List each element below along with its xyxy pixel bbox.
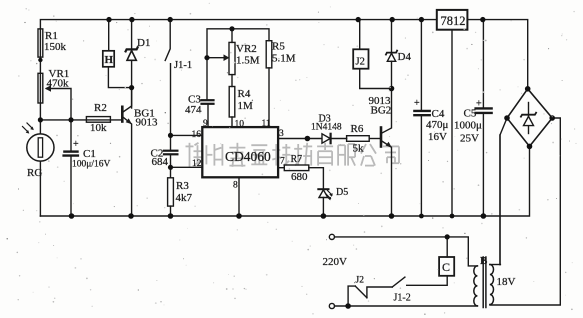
svg-text:J1-1: J1-1 (174, 60, 192, 71)
svg-text:R4: R4 (238, 88, 251, 100)
svg-text:+: + (476, 99, 482, 110)
svg-text:25V: 25V (460, 133, 479, 145)
svg-text:B: B (480, 255, 488, 267)
svg-text:470k: 470k (47, 78, 70, 90)
svg-text:R6: R6 (351, 123, 364, 135)
svg-text:D4: D4 (398, 51, 412, 63)
svg-text:R7: R7 (291, 154, 303, 165)
svg-text:RG: RG (27, 167, 42, 179)
svg-text:680: 680 (291, 171, 308, 183)
svg-text:+: + (414, 98, 420, 109)
svg-text:9013: 9013 (136, 117, 159, 129)
svg-text:12: 12 (192, 159, 202, 169)
svg-text:R2: R2 (94, 102, 107, 114)
svg-text:9: 9 (203, 119, 208, 129)
svg-text:1M: 1M (238, 100, 254, 112)
svg-text:18V: 18V (497, 276, 516, 288)
svg-text:D1: D1 (137, 37, 150, 49)
svg-text:BG2: BG2 (371, 105, 392, 117)
svg-text:C5: C5 (464, 108, 477, 120)
svg-text:J2: J2 (356, 276, 365, 286)
svg-text:5k: 5k (353, 143, 365, 155)
svg-text:100μ/16V: 100μ/16V (72, 160, 110, 170)
svg-text:R5: R5 (272, 41, 285, 53)
svg-text:1000μ: 1000μ (454, 120, 482, 132)
svg-text:1N4148: 1N4148 (311, 123, 342, 133)
svg-text:684: 684 (152, 156, 169, 168)
svg-text:8: 8 (233, 181, 238, 191)
svg-text:470μ: 470μ (426, 119, 449, 131)
svg-text:J1-2: J1-2 (394, 293, 411, 304)
svg-text:7: 7 (280, 157, 285, 167)
svg-text:1.5M: 1.5M (236, 55, 260, 67)
svg-text:J2: J2 (356, 57, 365, 68)
svg-text:10: 10 (235, 120, 245, 130)
svg-text:11: 11 (262, 119, 271, 129)
svg-text:D5: D5 (336, 187, 348, 198)
svg-text:220V: 220V (323, 256, 348, 268)
svg-text:3: 3 (279, 129, 284, 139)
svg-text:10k: 10k (90, 122, 107, 134)
svg-text:C1: C1 (83, 148, 96, 160)
svg-text:16V: 16V (428, 131, 447, 143)
svg-text:H: H (105, 54, 114, 66)
svg-text:474: 474 (185, 104, 202, 116)
svg-text:150k: 150k (44, 41, 67, 53)
svg-text:7812: 7812 (441, 14, 466, 28)
svg-text:CD4060: CD4060 (225, 149, 271, 164)
svg-text:4k7: 4k7 (176, 192, 193, 204)
svg-text:5.1M: 5.1M (272, 53, 296, 65)
svg-text:16: 16 (192, 130, 202, 140)
svg-text:VR2: VR2 (236, 43, 257, 55)
svg-text:R3: R3 (176, 180, 189, 192)
svg-text:+: + (73, 139, 79, 150)
svg-text:C: C (442, 260, 450, 274)
